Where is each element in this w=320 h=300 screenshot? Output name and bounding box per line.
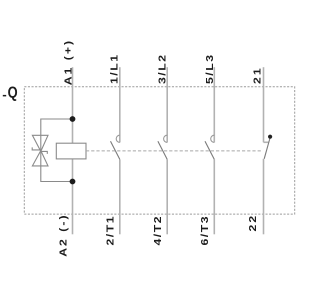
junction dot top (A1) (70, 116, 76, 122)
wire 21 top (263, 67, 265, 142)
svg-text:22: 22 (248, 214, 259, 232)
coil K rectangle (56, 143, 86, 159)
wire 1/L1 top (119, 67, 121, 142)
svg-text:4/T2: 4/T2 (153, 215, 164, 246)
contact seat 21 (264, 141, 270, 143)
enclosure dashed box (24, 87, 294, 214)
device label -Q hyphen (3, 95, 6, 97)
wire 2/T1 bottom (119, 159, 121, 234)
contact hook 5/L3 (211, 135, 215, 142)
wire branch suppressor loop (41, 119, 73, 182)
contact point dot 21 (268, 135, 272, 139)
suppressor bottom triangle (32, 151, 48, 166)
svg-text:A2 (-): A2 (-) (58, 213, 69, 256)
suppressor top triangle (32, 135, 48, 151)
wire 4/T2 bottom (166, 159, 168, 234)
wire 22 bottom (263, 159, 265, 235)
wire 3/L2 top (166, 67, 168, 142)
svg-text:21: 21 (252, 66, 263, 84)
junction dot bottom (A2) (70, 179, 76, 185)
svg-text:6/T3: 6/T3 (200, 215, 211, 246)
contact hook 3/L2 (164, 135, 168, 142)
mechanical linkage dashed line (86, 150, 262, 152)
svg-text:1/L1: 1/L1 (109, 53, 120, 84)
svg-text:Q: Q (8, 84, 18, 101)
contact blade 5/L3 (205, 141, 214, 159)
wire A1 top (72, 67, 74, 143)
contact blade 1/L1 (111, 141, 120, 159)
wire 5/L3 top (213, 67, 215, 142)
wire 6/T3 bottom (213, 159, 215, 234)
contact blade 21-22 (264, 138, 270, 158)
suppressor Z mark (32, 147, 47, 154)
wire A2 bottom (72, 159, 74, 234)
svg-text:2/T1: 2/T1 (105, 215, 116, 246)
contact hook 1/L1 (116, 135, 120, 142)
contact blade 3/L2 (158, 141, 167, 159)
